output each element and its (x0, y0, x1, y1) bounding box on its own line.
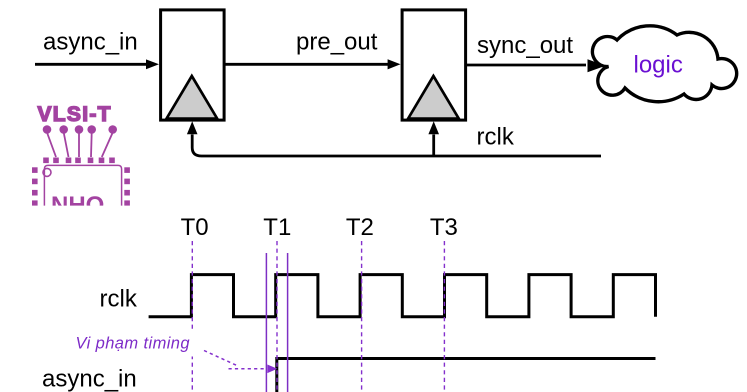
logo dots and pin leads (44, 126, 117, 157)
wire pre_out (224, 63, 388, 66)
wire rclk feedback (192, 135, 601, 157)
svg-text:Vi phạm timing: Vi phạm timing (76, 335, 191, 353)
dashed marker line T0 (191, 241, 193, 392)
logo VLSI-T (38, 103, 112, 126)
cloud logic (592, 26, 736, 102)
clock triangle of U1 (167, 76, 218, 119)
svg-text:logic: logic (634, 52, 683, 79)
clock triangle of U2 (408, 76, 459, 119)
wire rclk branch to U2 (432, 135, 435, 157)
logo chip top pins (43, 158, 115, 164)
dashed annotation arrow (204, 351, 266, 369)
svg-text:async_in: async_in (42, 366, 137, 392)
flip-flop U2 (402, 10, 466, 120)
dashed marker line T2 (361, 241, 363, 392)
arrow into U1 clock (187, 121, 198, 134)
label backing box (71, 331, 199, 357)
svg-text:rclk: rclk (477, 123, 515, 150)
flip-flop U1 (161, 10, 225, 120)
hold window line right (287, 253, 289, 392)
logo chip side pins (32, 167, 130, 205)
setup window line left (265, 253, 267, 392)
svg-text:sync_out: sync_out (477, 32, 573, 59)
svg-text:async_in: async_in (43, 29, 138, 56)
svg-text:VLSI-T: VLSI-T (38, 103, 112, 126)
wire sync_out (466, 64, 586, 67)
svg-text:T1: T1 (263, 214, 291, 241)
logo NHO text clipped (51, 192, 104, 219)
logo chip body (clipped at bottom) (43, 165, 122, 205)
wire async_in into FF1 (35, 63, 147, 66)
dashed marker line T1 (276, 241, 278, 392)
dashed marker line T3 (443, 241, 445, 392)
svg-text:T3: T3 (430, 214, 458, 241)
rclk waveform (149, 275, 656, 317)
svg-text:T0: T0 (181, 214, 209, 241)
svg-text:rclk: rclk (100, 286, 138, 313)
async_in waveform (277, 359, 656, 392)
arrow into U2 clock (428, 121, 439, 134)
svg-text:pre_out: pre_out (296, 29, 378, 56)
annotation arrowhead (267, 365, 277, 374)
svg-text:T2: T2 (346, 214, 374, 241)
